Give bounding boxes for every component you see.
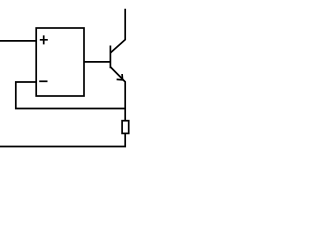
- transistor Q1 base bar: [109, 46, 111, 69]
- transistor Q1 collector diagonal and collector stub: [110, 9, 125, 53]
- wire op-amp output to base: [84, 61, 110, 63]
- pin label + (non-inverting): [40, 35, 48, 44]
- pin label - (inverting): [39, 80, 47, 82]
- wire resistor bottom lead and bottom bus: [0, 133, 125, 146]
- op-amp U1 body: [36, 28, 84, 96]
- wire non-inverting input: [0, 40, 36, 42]
- transistor Q1 emitter arrowhead: [117, 74, 123, 80]
- transistor Q1 emitter diagonal and wire down to resistor: [110, 67, 125, 121]
- resistor R1 body: [122, 121, 129, 134]
- wire inverting input with feedback loop to emitter: [16, 82, 125, 109]
